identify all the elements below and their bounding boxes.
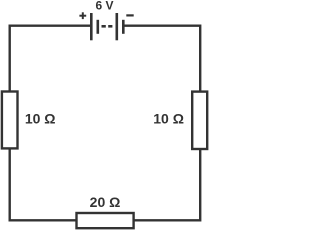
label 6 V xyxy=(95,0,113,13)
resistor 20 ohm bottom xyxy=(77,213,134,228)
wire loop (top-right, right, bottom, left, top-left segments) xyxy=(10,26,201,221)
battery 6V: long plate left (+) xyxy=(90,13,93,40)
battery 6V: dash 1 xyxy=(102,25,106,28)
+ terminal mark xyxy=(79,12,86,19)
battery 6V: long plate right xyxy=(116,13,119,40)
label 10 ohm left xyxy=(25,111,56,127)
resistor 10 ohm right xyxy=(192,92,207,149)
battery 6V: short plate right (-) xyxy=(122,20,125,34)
battery 6V: short plate left xyxy=(97,20,100,34)
svg-text:10 Ω: 10 Ω xyxy=(25,111,56,127)
svg-text:20 Ω: 20 Ω xyxy=(90,194,121,210)
battery 6V: dash 2 xyxy=(108,25,112,28)
resistor 10 ohm left xyxy=(2,92,18,149)
- terminal mark xyxy=(126,14,133,16)
label 10 ohm right xyxy=(153,111,184,127)
label 20 ohm xyxy=(90,194,121,210)
svg-text:10 Ω: 10 Ω xyxy=(153,111,184,127)
svg-text:6 V: 6 V xyxy=(95,0,113,13)
